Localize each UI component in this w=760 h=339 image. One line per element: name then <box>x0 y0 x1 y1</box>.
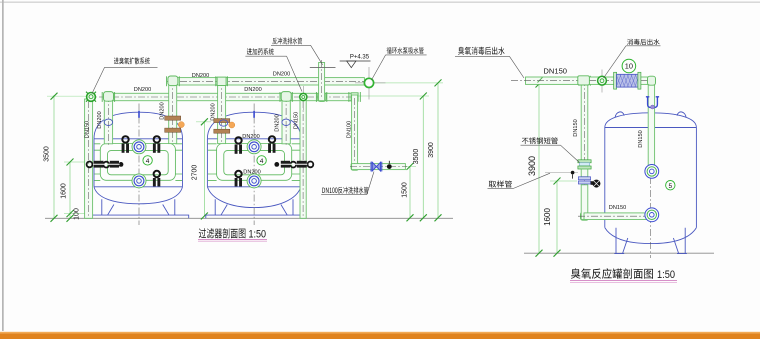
svg-text:3500: 3500 <box>43 146 50 162</box>
svg-text:DN150: DN150 <box>609 205 626 211</box>
fitting tee riser C top <box>217 77 226 85</box>
tank T2 centerline <box>253 104 255 226</box>
spray nozzle blue at tank inlet <box>646 97 659 108</box>
branch pipe down (stainless drop) <box>581 77 588 161</box>
fitting tee drain drop <box>351 93 358 101</box>
tank T3 legs <box>614 228 687 254</box>
tank T2 valve top-left <box>235 137 242 154</box>
tank T2 tag circle 4 <box>257 156 266 165</box>
tank T2 dome peak tick <box>253 111 255 118</box>
static mixer body <box>617 74 638 87</box>
centerline branch drop <box>584 79 586 218</box>
nozzle ellipse tank2 left dome <box>219 120 227 126</box>
svg-text:1:50: 1:50 <box>657 269 675 281</box>
header pipe row1 DN200 <box>172 78 364 85</box>
tank T1 dome peak tick <box>138 111 140 118</box>
tank T3 lower nozzle <box>645 208 659 222</box>
svg-text:DN150: DN150 <box>638 130 644 147</box>
gasket dot tank1 right riser <box>178 122 184 128</box>
title left: filter section 1:50 <box>198 228 267 241</box>
svg-text:P+4.35: P+4.35 <box>350 55 370 61</box>
fitting tee branch right drawing <box>578 76 590 85</box>
label: stainless short pipe <box>521 137 580 162</box>
label: backwash drain pipe <box>271 38 323 65</box>
centerline outlet pipe <box>511 80 652 82</box>
drain outlet pipe DN100 <box>352 164 406 170</box>
svg-text:DN200: DN200 <box>159 102 165 119</box>
ground line left drawing <box>45 217 453 219</box>
svg-text:1500: 1500 <box>401 182 408 198</box>
tank T1 centerline <box>138 104 140 226</box>
tank T1 valve top-right <box>153 136 160 153</box>
fitting elbow row1 left <box>168 76 178 86</box>
svg-text:DN150: DN150 <box>543 67 567 76</box>
extension line valves to dim 1600 <box>64 161 87 163</box>
tank T1 filter vessel outline <box>94 112 183 204</box>
svg-text:DN150: DN150 <box>573 119 579 136</box>
label: pump suction pipe <box>372 47 427 80</box>
dimension line 1600 left <box>60 159 73 222</box>
tank T1 bottom manhole <box>132 174 146 188</box>
label: outlet after disinfection <box>604 39 661 78</box>
label: ozone diffuser system <box>92 57 158 93</box>
svg-text:4: 4 <box>260 158 264 165</box>
tag circle 10 <box>622 59 636 73</box>
riser DN200 tank1 right (from row1) <box>169 78 177 144</box>
svg-text:DN150: DN150 <box>294 112 300 129</box>
svg-text:DN200: DN200 <box>97 111 103 128</box>
title right: ozone reaction tank section 1:50 <box>570 268 677 282</box>
flange pair tank1 right riser <box>165 116 181 120</box>
fitting tee riser A top <box>104 92 114 102</box>
tank T2 filter vessel outline <box>207 112 301 207</box>
nozzle ellipse tank2 right dome <box>282 119 290 125</box>
riser DN150 tank2 right outside wall <box>300 99 306 218</box>
tank T2 internal distributor ring <box>217 144 292 181</box>
flange pair tank2 left riser <box>214 119 230 123</box>
node circle 1: ozone diffuser feed <box>86 92 96 102</box>
extension line node1 to dim 3500 <box>47 95 87 97</box>
drain riser top bar <box>310 67 336 69</box>
sampling tap dot <box>545 171 578 179</box>
svg-text:DN200: DN200 <box>242 134 259 140</box>
tank T2 legs <box>215 199 293 215</box>
tank T1 side valves left <box>87 161 124 168</box>
centerline row1 <box>167 80 369 82</box>
pipe junction collars <box>102 76 590 102</box>
node circle 3: pump suction <box>355 67 386 100</box>
svg-text:1600: 1600 <box>543 208 552 226</box>
tank T2 valve top-right <box>268 136 275 153</box>
tank T1 internal distributor ring <box>100 144 175 181</box>
tank T1 legs <box>102 199 175 215</box>
svg-text:DN100: DN100 <box>346 121 352 138</box>
outlet pipe horizontal DN150 <box>526 77 651 84</box>
riser DN200 tank2 right (from row2) <box>282 93 290 144</box>
butterfly valve blue on drain <box>371 162 382 172</box>
extension line base to dim 100 <box>64 213 90 215</box>
dimension line 3900 mid <box>374 79 443 221</box>
fitting elbow drain riser <box>318 92 326 101</box>
centerline row2 <box>86 96 352 98</box>
svg-text:DN200: DN200 <box>134 87 151 93</box>
tank T1 tag circle 4 <box>143 156 152 165</box>
dimension line 1600 right <box>543 178 577 257</box>
svg-text:DN200: DN200 <box>243 169 260 175</box>
label: dosing system <box>245 48 302 91</box>
tag circle 5 <box>666 181 675 190</box>
svg-text:1600: 1600 <box>60 183 67 199</box>
tank T2 valve bottom-left <box>235 171 242 187</box>
svg-text:100: 100 <box>73 208 80 220</box>
node circle 4: outlet connection <box>598 70 607 93</box>
svg-text:3900: 3900 <box>428 142 435 158</box>
gasket dot tank2 left riser <box>229 122 235 128</box>
tank T2 side valves right <box>274 161 313 168</box>
tank T3 lifting lug right <box>677 112 686 118</box>
valve handwheel dot on drain <box>387 164 392 169</box>
flange joint upper (stainless short pipe top) <box>578 160 591 163</box>
riser DN200 tank1 left (to dome) <box>104 93 112 144</box>
svg-text:1:50: 1:50 <box>249 228 267 240</box>
svg-text:2700: 2700 <box>191 165 198 181</box>
static mixer flange left <box>614 72 617 89</box>
flange joint lower (blue) <box>578 177 590 180</box>
svg-text:4: 4 <box>146 158 150 165</box>
svg-text:DN200: DN200 <box>244 87 261 93</box>
svg-text:DN200: DN200 <box>273 72 290 78</box>
fitting tee riser D top <box>281 92 291 102</box>
header pipe row2 DN200 <box>105 93 358 100</box>
level mark P+4.35 <box>340 55 371 68</box>
svg-text:3500: 3500 <box>413 149 420 165</box>
dimension line 3500 mid <box>358 93 429 222</box>
dimension line 1500 mid <box>401 163 416 221</box>
nozzle ellipse tank1 left dome <box>104 119 112 125</box>
tank T2 bottom manhole <box>247 174 261 188</box>
fitting elbow inlet right drawing <box>648 76 656 85</box>
drain drop pipe DN100 <box>352 95 358 167</box>
tank T2 top manhole <box>247 140 261 154</box>
elbow down into tank <box>648 78 654 167</box>
tank T2 base plate <box>206 215 304 218</box>
riser DN200 tank2 left (from row1) <box>218 78 226 144</box>
tank T3 centerline <box>650 99 652 258</box>
svg-text:DN200: DN200 <box>275 114 281 131</box>
tank T3 upper nozzle <box>645 165 659 179</box>
svg-text:5: 5 <box>668 183 672 190</box>
svg-text:3900: 3900 <box>527 156 537 176</box>
node circle 2: dosing feed <box>300 86 307 110</box>
elbow pipe to bottom nozzle <box>581 185 588 220</box>
break tick on pipe <box>538 77 543 82</box>
tank T1 valve bottom-right <box>153 171 160 187</box>
svg-text:DN200: DN200 <box>192 73 209 79</box>
dimension line 3500 left <box>43 93 57 222</box>
tank T1 base plate <box>91 215 189 218</box>
svg-text:10: 10 <box>625 62 633 71</box>
fitting elbow bottom right drawing <box>581 212 589 220</box>
riser DN150 tank1 left outside wall <box>85 99 93 218</box>
tank T1 top manhole <box>132 140 146 154</box>
dimension line 2700 between tanks <box>191 118 211 219</box>
backwash drain riser <box>319 63 325 101</box>
svg-text:DN200: DN200 <box>210 103 216 120</box>
top border line <box>0 2 760 3</box>
label: sampling pipe <box>488 173 551 188</box>
svg-text:DN150: DN150 <box>84 121 90 138</box>
fitting elbow drain outlet <box>351 163 358 170</box>
bottom orange bar <box>0 332 760 334</box>
tank T1 ring stubs <box>95 144 183 181</box>
ground line right drawing <box>524 252 714 254</box>
left border line <box>2 0 4 331</box>
label: DN100 backwash drain <box>321 172 374 195</box>
dimension line 3900 right <box>527 81 546 257</box>
tank T3 lifting lug left <box>615 112 624 118</box>
static mixer flange right <box>638 72 641 89</box>
label: ozone disinfected outlet <box>455 47 524 78</box>
butterfly valve with black knob <box>591 180 601 188</box>
tank T1 valve top-left <box>122 136 129 153</box>
tank T2 ring stubs <box>208 144 301 181</box>
tank T3 ozone reaction vessel outline <box>605 113 697 244</box>
